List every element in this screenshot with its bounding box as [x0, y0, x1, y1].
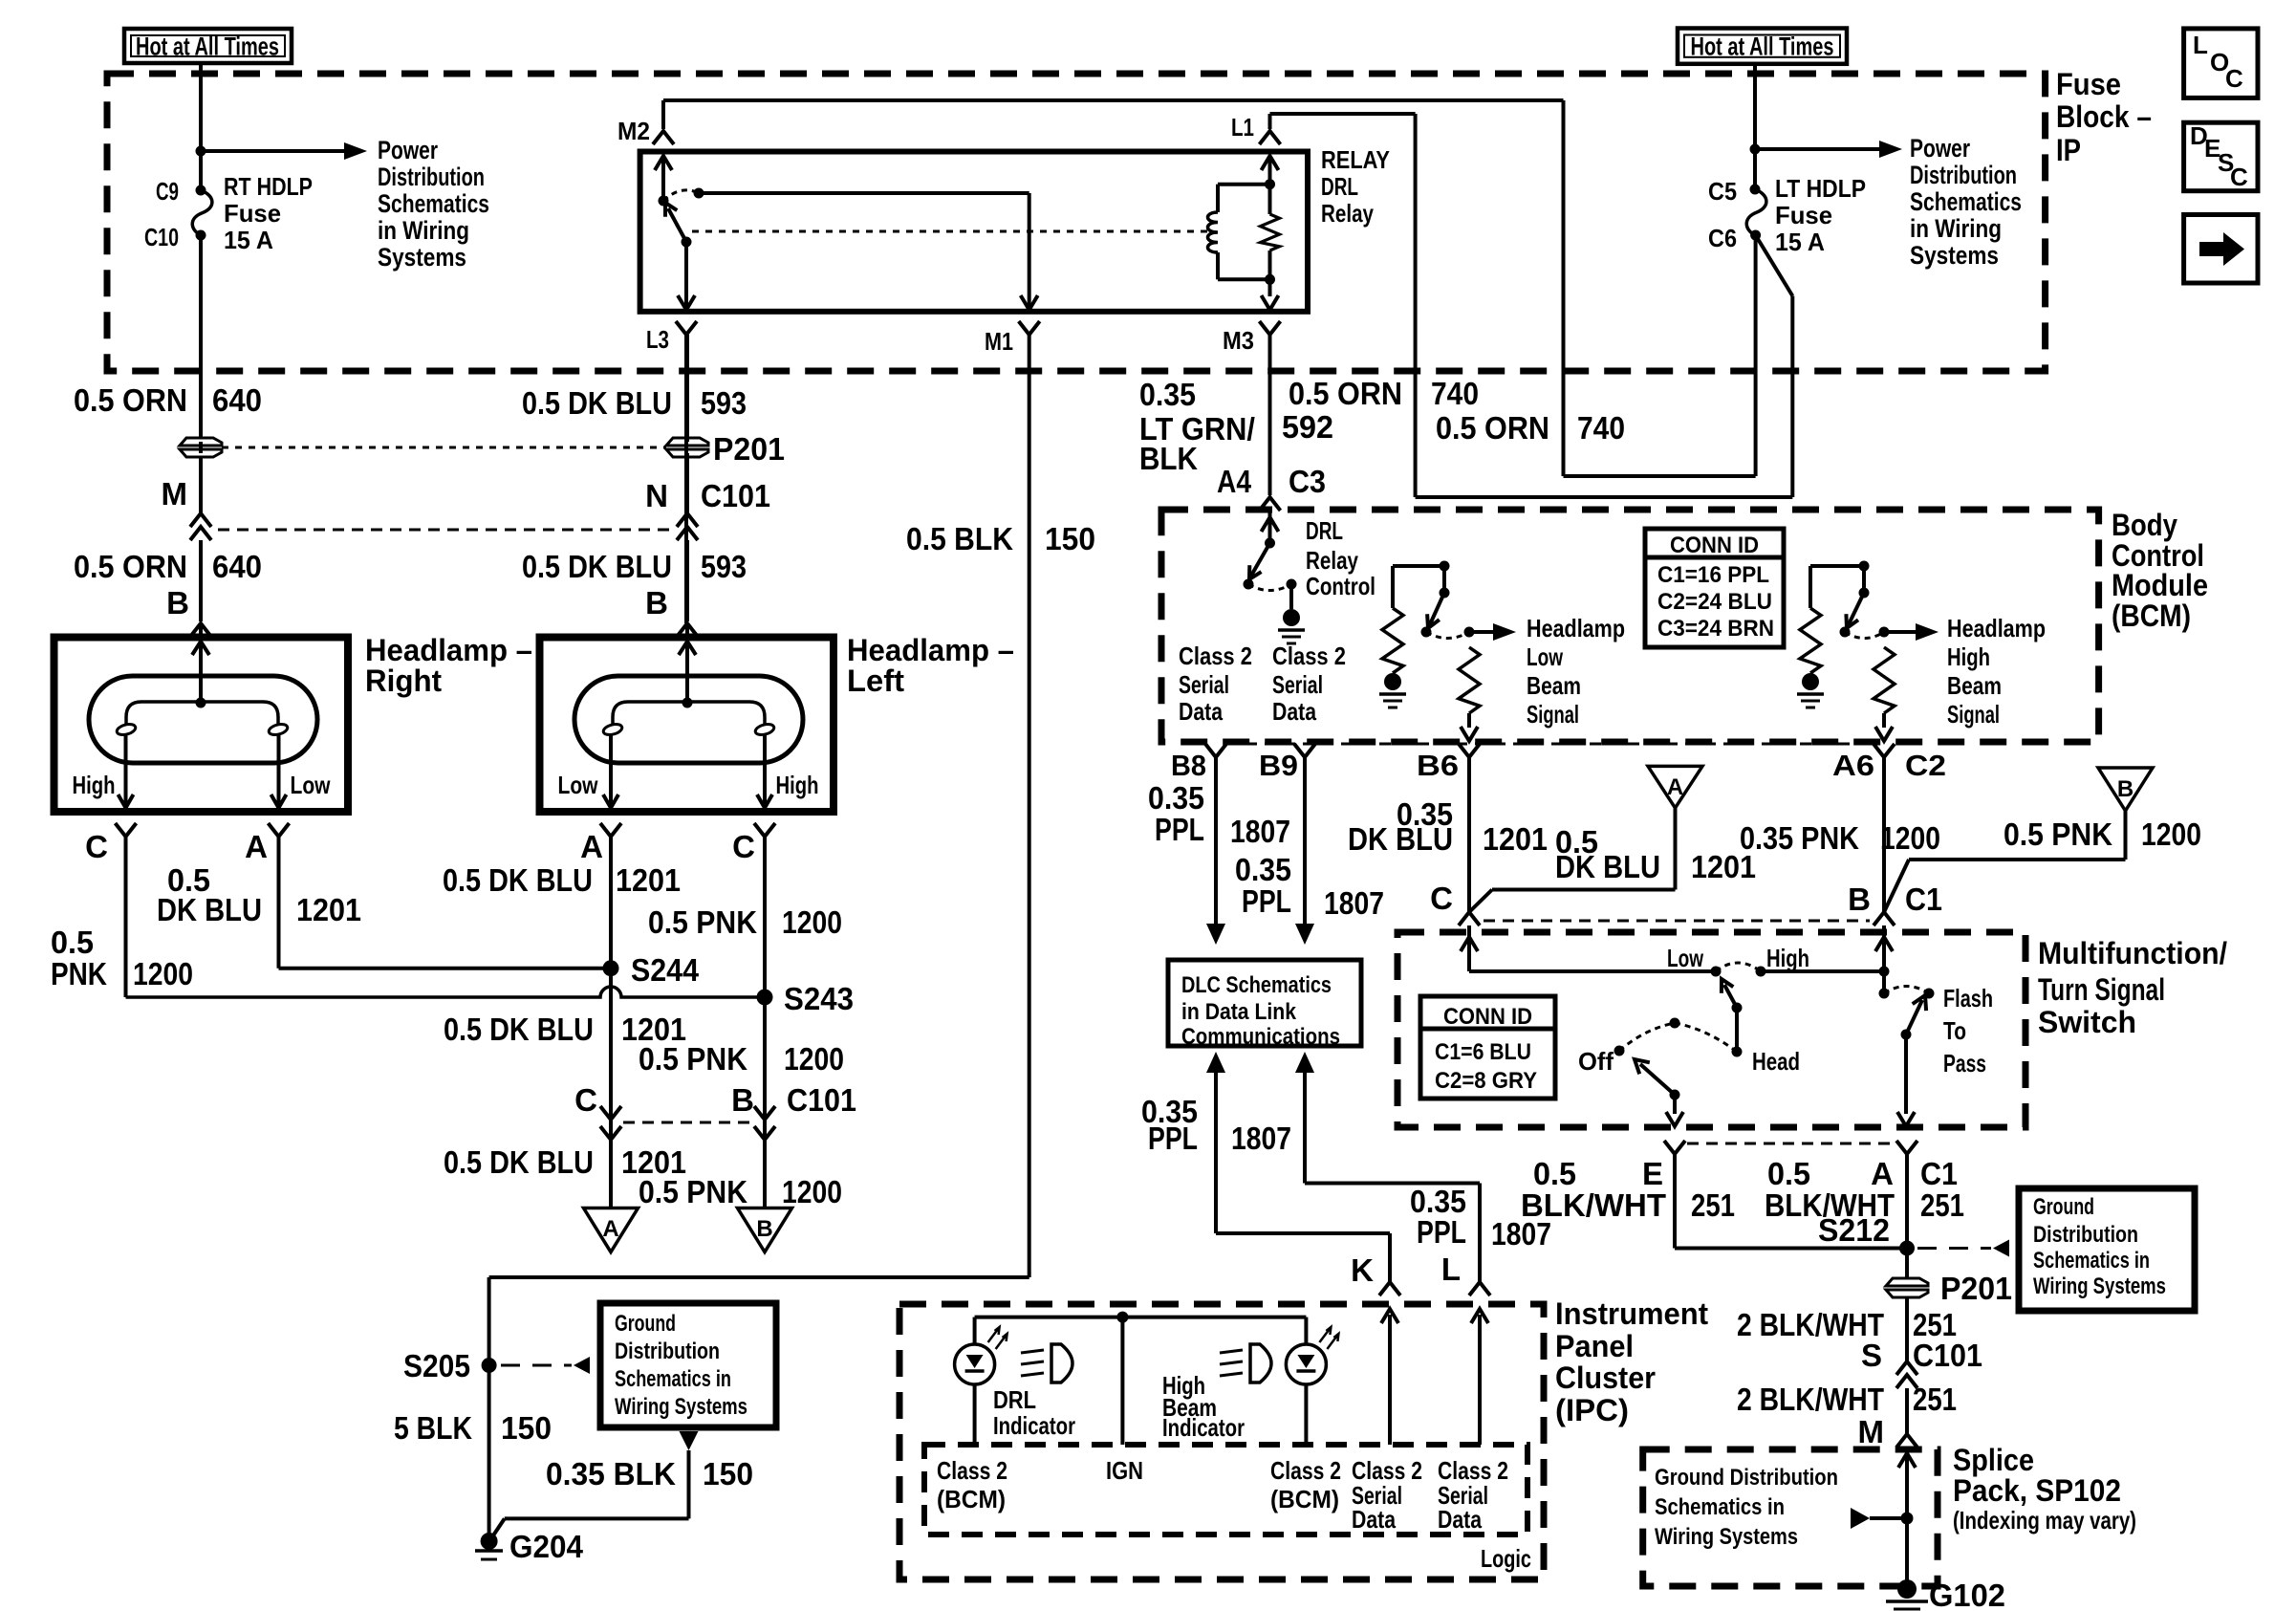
- svg-text:0.5 PNK: 0.5 PNK: [639, 1041, 747, 1077]
- svg-text:C101: C101: [701, 478, 770, 513]
- svg-text:B: B: [1848, 882, 1871, 917]
- svg-text:B: B: [2117, 776, 2134, 802]
- svg-text:Right: Right: [365, 664, 442, 698]
- svg-text:B: B: [645, 585, 668, 620]
- svg-text:Body: Body: [2112, 508, 2177, 542]
- svg-text:1201: 1201: [1483, 821, 1548, 857]
- svg-text:1200: 1200: [784, 1041, 844, 1077]
- svg-text:0.5 ORN: 0.5 ORN: [74, 549, 187, 584]
- svg-text:1807: 1807: [1230, 814, 1290, 849]
- svg-text:Low: Low: [558, 771, 599, 799]
- svg-text:251: 251: [1920, 1187, 1964, 1223]
- svg-text:M3: M3: [1223, 326, 1254, 355]
- svg-text:(BCM): (BCM): [937, 1485, 1006, 1513]
- svg-text:Fuse: Fuse: [224, 199, 281, 228]
- svg-text:C: C: [574, 1082, 597, 1118]
- svg-text:C10: C10: [144, 223, 179, 251]
- svg-text:DK BLU: DK BLU: [157, 892, 262, 927]
- svg-text:in Data Link: in Data Link: [1181, 999, 1297, 1025]
- svg-text:15 A: 15 A: [1775, 228, 1825, 256]
- svg-text:Off: Off: [1578, 1047, 1614, 1076]
- svg-text:M2: M2: [617, 117, 650, 145]
- svg-text:0.5 DK BLU: 0.5 DK BLU: [444, 1012, 594, 1047]
- svg-text:B: B: [731, 1082, 754, 1118]
- svg-text:Data: Data: [1352, 1505, 1396, 1534]
- svg-text:Signal: Signal: [1947, 700, 2000, 729]
- svg-text:Class 2: Class 2: [1272, 642, 1346, 670]
- svg-text:Distribution: Distribution: [2033, 1222, 2138, 1248]
- svg-text:Flash: Flash: [1943, 984, 1993, 1012]
- svg-text:Module: Module: [2112, 568, 2208, 602]
- svg-text:5 BLK: 5 BLK: [394, 1410, 472, 1446]
- svg-text:Signal: Signal: [1527, 700, 1579, 729]
- svg-text:1200: 1200: [782, 904, 842, 940]
- svg-text:0.5 ORN: 0.5 ORN: [74, 382, 187, 418]
- svg-text:Pass: Pass: [1943, 1049, 1986, 1078]
- svg-text:Logic: Logic: [1481, 1544, 1531, 1573]
- svg-text:L1: L1: [1231, 113, 1254, 142]
- svg-text:0.5 DK BLU: 0.5 DK BLU: [444, 1144, 594, 1180]
- svg-text:Fuse: Fuse: [2056, 67, 2121, 101]
- svg-text:1201: 1201: [296, 892, 361, 927]
- svg-text:S243: S243: [784, 981, 854, 1016]
- svg-text:Panel: Panel: [1555, 1329, 1634, 1363]
- svg-text:Left: Left: [847, 664, 904, 698]
- svg-text:C5: C5: [1708, 177, 1737, 206]
- svg-text:DRL: DRL: [993, 1385, 1036, 1414]
- svg-text:C: C: [1430, 881, 1453, 916]
- svg-text:Distribution: Distribution: [615, 1339, 720, 1364]
- svg-text:1201: 1201: [1691, 849, 1756, 884]
- svg-text:Wiring Systems: Wiring Systems: [615, 1394, 747, 1420]
- svg-text:A6: A6: [1832, 749, 1874, 782]
- svg-text:C1=6 BLU: C1=6 BLU: [1435, 1039, 1531, 1065]
- svg-text:Fuse: Fuse: [1775, 201, 1832, 229]
- svg-text:L: L: [2193, 31, 2208, 59]
- svg-text:S212: S212: [1818, 1212, 1890, 1248]
- svg-text:A: A: [602, 1216, 618, 1242]
- svg-text:Serial: Serial: [1179, 670, 1229, 699]
- svg-text:0.35: 0.35: [1235, 852, 1291, 887]
- svg-text:0.35: 0.35: [1148, 780, 1204, 816]
- svg-text:A: A: [1667, 774, 1683, 800]
- svg-text:A: A: [1871, 1156, 1894, 1191]
- svg-text:251: 251: [1913, 1382, 1957, 1417]
- svg-text:C: C: [85, 829, 108, 864]
- svg-text:C1=16 PPL: C1=16 PPL: [1657, 562, 1769, 588]
- svg-text:P201: P201: [713, 431, 785, 467]
- svg-text:0.5: 0.5: [1767, 1156, 1810, 1191]
- svg-text:P201: P201: [1940, 1271, 2012, 1306]
- svg-text:Instrument: Instrument: [1555, 1296, 1708, 1331]
- svg-text:Low: Low: [1527, 642, 1564, 671]
- svg-text:G204: G204: [509, 1529, 584, 1564]
- svg-text:592: 592: [1282, 409, 1333, 445]
- svg-text:Low: Low: [1667, 944, 1704, 972]
- svg-text:Head: Head: [1752, 1047, 1800, 1076]
- svg-text:S244: S244: [631, 952, 700, 988]
- svg-text:0.5 DK BLU: 0.5 DK BLU: [443, 862, 593, 898]
- svg-text:1807: 1807: [1324, 885, 1384, 921]
- svg-text:Schematics in: Schematics in: [615, 1366, 731, 1392]
- svg-text:L: L: [1441, 1252, 1461, 1287]
- svg-text:in Wiring: in Wiring: [378, 216, 469, 245]
- svg-text:To: To: [1943, 1016, 1966, 1045]
- svg-text:A4: A4: [1217, 464, 1252, 499]
- svg-text:(Indexing may vary): (Indexing may vary): [1953, 1506, 2136, 1535]
- svg-text:C9: C9: [156, 177, 179, 206]
- svg-text:L3: L3: [646, 325, 669, 354]
- svg-text:Headlamp –: Headlamp –: [365, 633, 532, 667]
- svg-text:Ground Distribution: Ground Distribution: [1655, 1465, 1838, 1491]
- svg-text:640: 640: [212, 549, 262, 584]
- svg-text:(BCM): (BCM): [2112, 599, 2191, 633]
- svg-text:150: 150: [501, 1410, 552, 1446]
- svg-text:B: B: [756, 1216, 772, 1242]
- svg-text:Hot at All Times: Hot at All Times: [1691, 33, 1834, 61]
- svg-text:Data: Data: [1438, 1505, 1482, 1534]
- svg-text:Schematics in: Schematics in: [2033, 1248, 2150, 1274]
- svg-text:CONN ID: CONN ID: [1443, 1004, 1532, 1030]
- svg-text:Systems: Systems: [378, 243, 466, 272]
- svg-text:B8: B8: [1171, 749, 1206, 782]
- svg-text:LT HDLP: LT HDLP: [1775, 174, 1866, 203]
- svg-text:PPL: PPL: [1155, 812, 1204, 847]
- svg-text:Multifunction/: Multifunction/: [2038, 936, 2227, 970]
- svg-text:640: 640: [212, 382, 262, 418]
- svg-text:Cluster: Cluster: [1555, 1361, 1656, 1395]
- svg-text:0.5 PNK: 0.5 PNK: [2004, 816, 2112, 852]
- svg-text:Data: Data: [1272, 697, 1316, 726]
- svg-text:Wiring Systems: Wiring Systems: [1655, 1524, 1798, 1550]
- svg-text:M: M: [1858, 1414, 1885, 1449]
- svg-text:Class 2: Class 2: [1270, 1456, 1341, 1485]
- svg-text:C6: C6: [1708, 224, 1737, 252]
- svg-text:IGN: IGN: [1106, 1456, 1143, 1485]
- svg-text:Ground: Ground: [615, 1311, 676, 1337]
- svg-text:Splice: Splice: [1953, 1443, 2034, 1477]
- svg-text:Communications: Communications: [1181, 1024, 1340, 1050]
- svg-text:1200: 1200: [2141, 816, 2201, 852]
- svg-text:0.35 PNK: 0.35 PNK: [1740, 820, 1859, 856]
- svg-text:Control: Control: [1306, 572, 1375, 600]
- svg-text:in Wiring: in Wiring: [1910, 214, 2002, 243]
- svg-text:K: K: [1351, 1252, 1374, 1288]
- svg-text:Indicator: Indicator: [993, 1411, 1075, 1440]
- svg-text:0.5 ORN: 0.5 ORN: [1436, 410, 1549, 446]
- svg-text:Headlamp: Headlamp: [1527, 614, 1625, 642]
- svg-text:1200: 1200: [1880, 820, 1940, 856]
- svg-text:E: E: [1642, 1156, 1663, 1191]
- svg-text:C1: C1: [1920, 1156, 1958, 1191]
- svg-text:Hot at All Times: Hot at All Times: [136, 33, 279, 61]
- svg-text:PNK: PNK: [51, 956, 107, 991]
- svg-text:C101: C101: [787, 1082, 856, 1118]
- svg-text:BLK/WHT: BLK/WHT: [1521, 1187, 1666, 1223]
- svg-text:Power: Power: [378, 136, 438, 164]
- svg-text:Block –: Block –: [2056, 99, 2152, 134]
- svg-text:Ground: Ground: [2033, 1194, 2094, 1220]
- svg-text:1807: 1807: [1231, 1121, 1291, 1156]
- svg-text:1200: 1200: [133, 956, 193, 991]
- svg-text:Headlamp: Headlamp: [1947, 614, 2046, 642]
- svg-text:DRL: DRL: [1306, 516, 1343, 545]
- svg-text:0.35 BLK: 0.35 BLK: [546, 1456, 676, 1491]
- svg-text:C2=24 BLU: C2=24 BLU: [1657, 589, 1772, 615]
- svg-text:S: S: [1861, 1338, 1882, 1373]
- svg-text:740: 740: [1431, 376, 1479, 411]
- svg-text:C: C: [732, 829, 755, 864]
- svg-text:C1: C1: [1905, 882, 1942, 917]
- svg-text:0.5 ORN: 0.5 ORN: [1289, 376, 1402, 411]
- svg-text:0.35: 0.35: [1139, 377, 1196, 412]
- svg-text:RELAY: RELAY: [1321, 145, 1390, 174]
- svg-text:High: High: [1947, 642, 1990, 671]
- svg-text:C2: C2: [1905, 749, 1946, 782]
- svg-text:IP: IP: [2056, 133, 2081, 167]
- svg-text:Class 2: Class 2: [937, 1456, 1007, 1485]
- svg-text:High: High: [73, 771, 116, 799]
- svg-text:DLC Schematics: DLC Schematics: [1181, 972, 1332, 998]
- svg-text:Relay: Relay: [1306, 546, 1358, 575]
- svg-text:A: A: [245, 829, 268, 864]
- svg-text:Indicator: Indicator: [1162, 1413, 1245, 1442]
- svg-text:DK BLU: DK BLU: [1348, 821, 1453, 857]
- svg-text:1201: 1201: [616, 862, 681, 898]
- svg-text:Switch: Switch: [2038, 1005, 2136, 1039]
- svg-text:DK BLU: DK BLU: [1555, 849, 1660, 884]
- svg-text:C2=8 GRY: C2=8 GRY: [1435, 1068, 1537, 1094]
- svg-text:DRL: DRL: [1321, 172, 1358, 201]
- svg-text:740: 740: [1577, 410, 1625, 446]
- svg-text:(BCM): (BCM): [1270, 1485, 1339, 1513]
- svg-text:M: M: [162, 476, 188, 512]
- svg-text:0.5: 0.5: [51, 925, 94, 960]
- svg-text:PPL: PPL: [1148, 1121, 1198, 1156]
- svg-text:1200: 1200: [782, 1174, 842, 1209]
- svg-text:2 BLK/WHT: 2 BLK/WHT: [1737, 1382, 1884, 1417]
- svg-text:PPL: PPL: [1417, 1214, 1466, 1250]
- svg-text:N: N: [645, 478, 668, 513]
- svg-text:Systems: Systems: [1910, 241, 1999, 270]
- svg-text:C3: C3: [1289, 464, 1326, 499]
- svg-text:0.5: 0.5: [1533, 1156, 1576, 1191]
- svg-text:Headlamp –: Headlamp –: [847, 633, 1014, 667]
- svg-text:G102: G102: [1929, 1578, 2005, 1611]
- svg-text:Beam: Beam: [1947, 671, 2002, 700]
- svg-text:Schematics in: Schematics in: [1655, 1494, 1785, 1520]
- svg-text:Pack, SP102: Pack, SP102: [1953, 1473, 2121, 1508]
- svg-text:C101: C101: [1913, 1338, 1982, 1373]
- svg-text:Power: Power: [1910, 134, 1970, 163]
- svg-text:150: 150: [703, 1456, 753, 1491]
- svg-text:B6: B6: [1417, 749, 1459, 782]
- svg-text:Wiring Systems: Wiring Systems: [2033, 1274, 2166, 1299]
- svg-text:C: C: [2230, 163, 2248, 191]
- svg-text:RT HDLP: RT HDLP: [224, 172, 313, 201]
- svg-text:Serial: Serial: [1272, 670, 1323, 699]
- svg-text:(IPC): (IPC): [1555, 1393, 1629, 1427]
- svg-text:B9: B9: [1259, 749, 1298, 782]
- svg-text:150: 150: [1045, 521, 1095, 556]
- svg-text:Beam: Beam: [1527, 671, 1581, 700]
- svg-text:0.5 DK BLU: 0.5 DK BLU: [522, 549, 672, 584]
- svg-text:Schematics: Schematics: [1910, 187, 2022, 216]
- svg-text:15 A: 15 A: [224, 226, 273, 254]
- svg-text:251: 251: [1691, 1187, 1735, 1223]
- svg-text:Distribution: Distribution: [1910, 161, 2017, 189]
- svg-text:593: 593: [701, 549, 747, 584]
- svg-text:CONN ID: CONN ID: [1670, 533, 1759, 558]
- svg-text:S205: S205: [403, 1348, 470, 1383]
- svg-text:A: A: [580, 829, 603, 864]
- svg-text:PPL: PPL: [1242, 883, 1291, 919]
- svg-text:0.5 BLK: 0.5 BLK: [906, 521, 1013, 556]
- svg-text:High: High: [776, 771, 819, 799]
- svg-text:0.5 PNK: 0.5 PNK: [639, 1174, 747, 1209]
- svg-text:593: 593: [701, 385, 747, 421]
- svg-text:Distribution: Distribution: [378, 163, 485, 191]
- svg-text:C3=24 BRN: C3=24 BRN: [1657, 616, 1774, 642]
- svg-text:Low: Low: [291, 771, 332, 799]
- svg-text:Data: Data: [1179, 697, 1223, 726]
- svg-text:0.5 PNK: 0.5 PNK: [648, 904, 757, 940]
- svg-text:Turn Signal: Turn Signal: [2038, 972, 2165, 1007]
- svg-text:M1: M1: [985, 327, 1013, 356]
- svg-text:C: C: [2225, 64, 2243, 93]
- svg-text:Schematics: Schematics: [378, 189, 489, 218]
- svg-text:0.5 DK BLU: 0.5 DK BLU: [522, 385, 672, 421]
- svg-text:B: B: [166, 585, 189, 620]
- svg-text:High: High: [1766, 944, 1809, 972]
- svg-text:Class 2: Class 2: [1179, 642, 1252, 670]
- svg-text:Relay: Relay: [1321, 199, 1374, 228]
- svg-text:BLK: BLK: [1139, 441, 1198, 476]
